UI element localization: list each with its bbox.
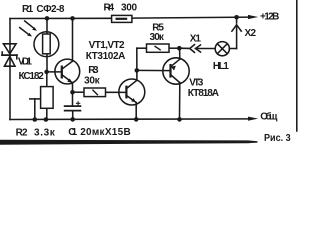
svg-text:КТ3102А: КТ3102А <box>86 51 126 62</box>
svg-text:HL1: HL1 <box>213 61 229 72</box>
svg-text:30к: 30к <box>84 75 100 86</box>
svg-text:R1: R1 <box>22 4 34 15</box>
svg-text:СФ2-8: СФ2-8 <box>36 4 64 15</box>
svg-text:20мкХ15В: 20мкХ15В <box>80 127 131 138</box>
svg-text:R2: R2 <box>16 127 28 138</box>
svg-text:КТ818А: КТ818А <box>188 88 219 99</box>
svg-text:VT1,VT2: VT1,VT2 <box>89 40 125 51</box>
svg-text:3.3к: 3.3к <box>34 127 56 138</box>
svg-text:+12В: +12В <box>260 12 279 23</box>
svg-text:30к: 30к <box>150 32 165 43</box>
svg-text:300: 300 <box>121 2 138 13</box>
svg-text:Рис. 3: Рис. 3 <box>264 132 291 144</box>
svg-text:R4: R4 <box>104 2 115 13</box>
svg-text:КС182: КС182 <box>19 71 45 82</box>
svg-text:Общ: Общ <box>260 111 278 123</box>
svg-text:X2: X2 <box>245 28 257 39</box>
svg-text:VD1: VD1 <box>18 56 32 67</box>
svg-text:С1: С1 <box>68 127 77 138</box>
svg-text:VT3: VT3 <box>189 78 203 89</box>
svg-text:X1: X1 <box>190 34 202 45</box>
